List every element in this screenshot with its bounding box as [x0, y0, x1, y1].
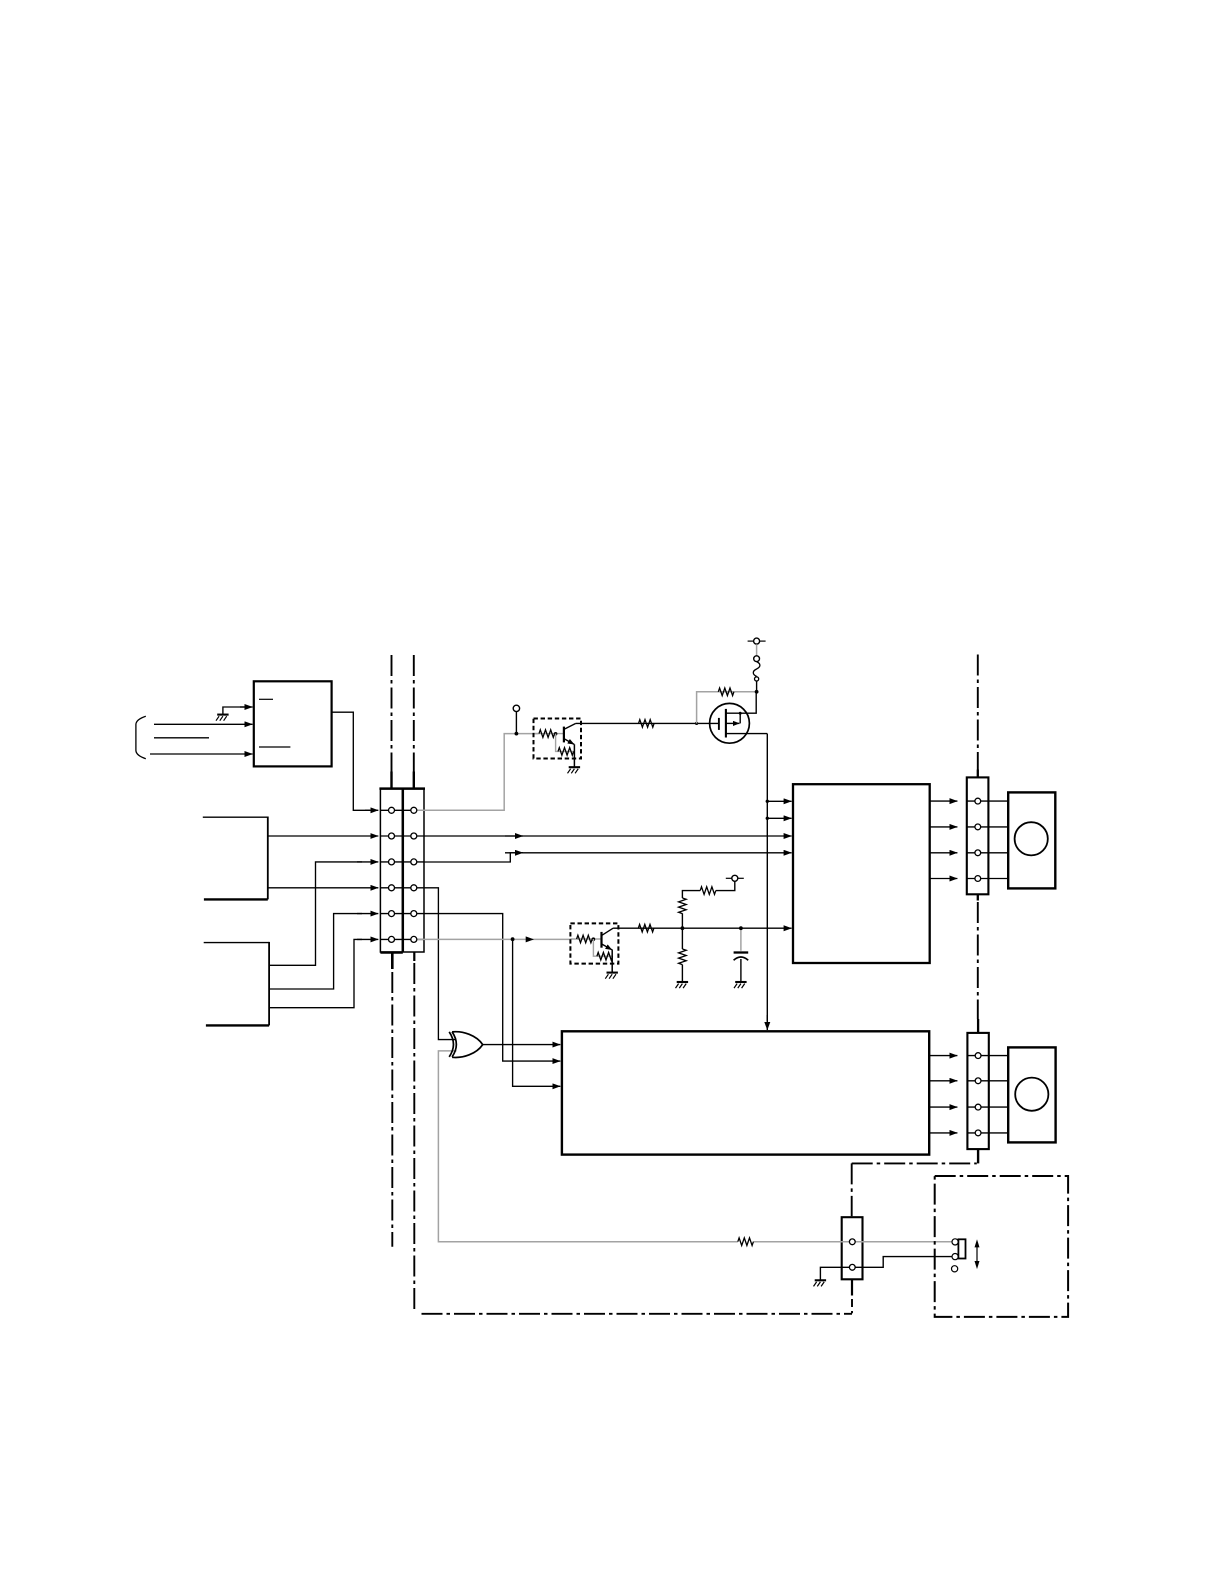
Q3 emitter to ground wire: [611, 950, 613, 973]
CN1 thick top edge: [379, 787, 425, 790]
ground symbol G6: [814, 1280, 827, 1286]
opto2 base-emitter resistor path (gray): [593, 939, 612, 956]
U1 output stub 1: [930, 800, 958, 802]
wire T1 down (gray): [756, 644, 758, 656]
switch SW1 actuator rect: [958, 1239, 965, 1258]
ground symbol G3: [605, 973, 618, 979]
chassis dash-dot below CN1 right: [413, 963, 415, 1311]
CN2 row wires to motor M1: [967, 801, 1008, 878]
XOR gate input 2 feedback (gray): [438, 1051, 951, 1242]
chassis dash-dot bottom horizontal: [422, 1313, 853, 1315]
opto1 base-emitter resistor path (gray): [556, 734, 575, 752]
wire B3 to CN1 row5: [269, 914, 362, 989]
junction dot opto2 base node: [592, 937, 596, 941]
CN3 pins: [975, 1053, 981, 1136]
junction dot divider node: [681, 926, 685, 930]
connector CN3 (motor 2): [967, 1033, 988, 1149]
transistor Q2 base bar (opto1): [563, 727, 565, 743]
junction dot at TP1 node: [515, 732, 519, 736]
wire switch NO contact to CN4 pin2 and ground: [820, 1257, 951, 1280]
Q3 emitter diagonal with arrow: [602, 944, 613, 950]
chassis dash-dot above CN1 right: [413, 655, 415, 772]
box B1 (sensor block): [254, 681, 332, 766]
resistor R8 (divider upper, vertical): [679, 898, 687, 914]
B1 internal tick 1: [259, 698, 273, 700]
CN1 top stub right (solid): [413, 772, 415, 790]
chassis dash-dot above CN2: [977, 655, 979, 770]
wire B2 to CN1 row2: [268, 835, 379, 837]
junction dot drain node: [755, 690, 759, 694]
resistor R4 (gate pull-up): [718, 688, 734, 696]
switch SW1 contact circle 1: [952, 1239, 958, 1245]
Q1 drain tap: [726, 692, 756, 713]
capacitor C1 plates: [734, 953, 749, 961]
wire B3 to CN1 row6: [269, 939, 362, 1007]
wire CN1 row2 to IC U1: [424, 835, 792, 837]
chassis dash-dot between CN2 and CN3: [977, 902, 979, 1019]
resistor R2 (opto1 base-emitter): [558, 748, 574, 756]
ground symbol G4: [676, 982, 689, 988]
chassis dash-dot above CN1 left: [391, 655, 393, 772]
capacitor C1 to ground: [740, 959, 742, 982]
U2 output stub 2: [929, 1080, 957, 1082]
CN2 top stub (solid): [977, 770, 979, 779]
CN1 pins left column: [389, 807, 395, 942]
CN1 top stub left (solid): [390, 772, 392, 790]
motor M2 circle: [1015, 1078, 1048, 1111]
Q3 collector diagonal: [602, 928, 614, 935]
wire B2 to CN1 row4: [268, 887, 379, 889]
wire CN1 row6 to opto2 (gray): [414, 938, 570, 940]
junction dot row6 branch: [511, 937, 515, 941]
resistor R3 (gate series): [639, 720, 655, 728]
CN1 left-half thick bottom: [380, 951, 402, 954]
wire to U1 input 2: [767, 817, 791, 819]
IC U2 (lower driver block): [562, 1031, 929, 1154]
transistor Q3 base bar (opto2): [600, 932, 602, 948]
resistor R10 (divider lower, vertical): [679, 949, 687, 965]
wire row6 branch down to U2 input 3: [513, 939, 561, 1087]
Q2 emitter to ground wire: [573, 744, 575, 767]
ground symbol G5: [734, 982, 747, 988]
divider lower leg wire: [681, 928, 683, 982]
capacitor C1 lead (gray): [740, 928, 742, 951]
wire opto2 collector to divider node: [613, 927, 682, 929]
wire XOR output to U2 input 1: [483, 1044, 561, 1046]
CN1 pins right column: [411, 807, 417, 942]
switch SW1 travel arrow: [975, 1239, 980, 1269]
gate pull-up resistor wire (gray): [697, 692, 756, 724]
Q1 drain junction dot: [739, 712, 742, 715]
U1 output stub 4: [930, 878, 958, 880]
CN3 top stub (solid): [977, 1019, 979, 1034]
opto2 dashed box: [570, 923, 618, 963]
CN1 bottom stub right (solid): [413, 952, 415, 961]
motor M2 box: [1008, 1047, 1055, 1142]
Q1 bulk arrow: [726, 722, 740, 724]
junction dot gate pull-up: [695, 722, 698, 725]
wire cable line 2 (stub): [154, 737, 209, 739]
Q2 collector diagonal: [564, 723, 576, 729]
Q1 channel bar: [725, 709, 727, 738]
wire opto1 collector to MOSFET gate: [576, 722, 718, 724]
thermal fuse F1 top circle: [754, 656, 760, 662]
IC U1 (upper driver block): [793, 784, 930, 963]
connector CN2 (motor 1): [967, 777, 989, 894]
chassis dash-dot below CN1 left: [391, 972, 393, 1247]
test point TP1 lead: [515, 712, 517, 734]
wire source vertical to U2 top: [766, 734, 768, 1021]
chassis dash-dot above CN4: [851, 1163, 853, 1216]
test point TP2 circle with ticks: [726, 875, 744, 881]
ground lead into B1 pin 1: [223, 707, 245, 714]
junction dot opto1 base node: [554, 732, 558, 736]
U1 output stub 3: [930, 852, 958, 854]
junction dot U1 feed 2: [766, 817, 769, 820]
flat cable bracket: [136, 716, 146, 758]
divider upper leg wire: [682, 881, 734, 928]
CN3 row wires to motor M2: [967, 1056, 1008, 1133]
B1 internal tick 2: [259, 746, 290, 748]
MOSFET Q1 circle: [710, 703, 750, 743]
CN1 row wires through housing: [380, 810, 424, 939]
Q1 gate bar: [718, 718, 720, 730]
thermal fuse F1 squiggle: [753, 662, 760, 677]
connector CN1 (12-pin double row): [380, 789, 424, 952]
box B2 (open-left block upper): [203, 817, 268, 900]
motor M1 box: [1008, 792, 1055, 888]
resistor R1 (opto1 LED series): [539, 730, 555, 738]
opto2 input wire (gray): [570, 938, 600, 940]
CN3 bottom stub (solid): [977, 1149, 979, 1163]
U2 output stub 4: [929, 1132, 957, 1134]
ground symbol G1: [216, 715, 229, 721]
Q2 emitter diagonal with arrow: [564, 739, 574, 745]
wire B3 to CN1 row3: [269, 862, 362, 965]
CN4 pins: [849, 1239, 855, 1270]
resistor R11 (feedback series): [738, 1238, 754, 1246]
box B3 (open-left block lower): [204, 942, 269, 1026]
Q1 bulk link: [739, 713, 741, 723]
thermal fuse F1 bottom loop: [755, 677, 759, 681]
junction dot U1 feed 1: [766, 800, 769, 803]
wire F1 to drain node: [756, 681, 758, 692]
chassis dash-dot below CN4: [851, 1280, 853, 1296]
test point TP1 circle: [513, 705, 519, 711]
terminal T1 circle with ticks: [748, 638, 766, 644]
opto1 input wire (gray): [534, 733, 564, 735]
mid arrow row3: [505, 852, 523, 854]
Q1 source tap: [726, 733, 767, 735]
sensor dashed-dot box: [935, 1176, 1068, 1317]
switch SW1 contact circle 2: [952, 1254, 958, 1260]
mid arrow row2: [505, 835, 523, 837]
connector CN4 (sensor switch): [842, 1217, 863, 1279]
U1 output stub 2: [930, 826, 958, 828]
resistor R9 (pull-up to TP2): [700, 887, 716, 895]
wire CN1 row4 to XOR input 1: [424, 888, 457, 1040]
CN2 bottom stub (solid): [977, 894, 979, 900]
junction dot capacitor node: [739, 926, 743, 930]
resistor R7 (series to divider): [638, 924, 654, 932]
CN2 pins: [975, 798, 981, 881]
wire CN1 row5 to U2 input 2: [424, 914, 560, 1062]
wire cable line 3 into B1: [150, 753, 253, 755]
resistor R5 (opto2 LED series): [577, 935, 593, 943]
chassis dash-dot horizontal to CN4 column: [852, 1162, 977, 1164]
wire cable line 1 into B1: [154, 723, 253, 725]
switch SW1 contact circle 3: [952, 1266, 958, 1272]
wire CN1 row3 to IC U1 with step: [424, 853, 792, 862]
CN1 divider: [402, 788, 405, 953]
XOR gate U3: [449, 1032, 483, 1058]
resistor R6 (opto2 base-emitter): [597, 952, 613, 960]
wire CN1 row1 to test point node (gray): [414, 734, 539, 811]
mid arrow row6: [526, 936, 534, 942]
wire divider node to U1 input 5: [682, 927, 791, 929]
wire to U1 input 1: [767, 800, 791, 802]
U2 output stub 3: [929, 1106, 957, 1108]
ground symbol G2: [568, 767, 581, 773]
CN1 bottom stub left (solid): [391, 953, 394, 970]
U2 output stub 1: [929, 1055, 957, 1057]
opto1 dashed box: [534, 719, 582, 759]
wire B1 output to CN1 row1: [332, 712, 370, 810]
motor M1 circle: [1015, 822, 1048, 855]
